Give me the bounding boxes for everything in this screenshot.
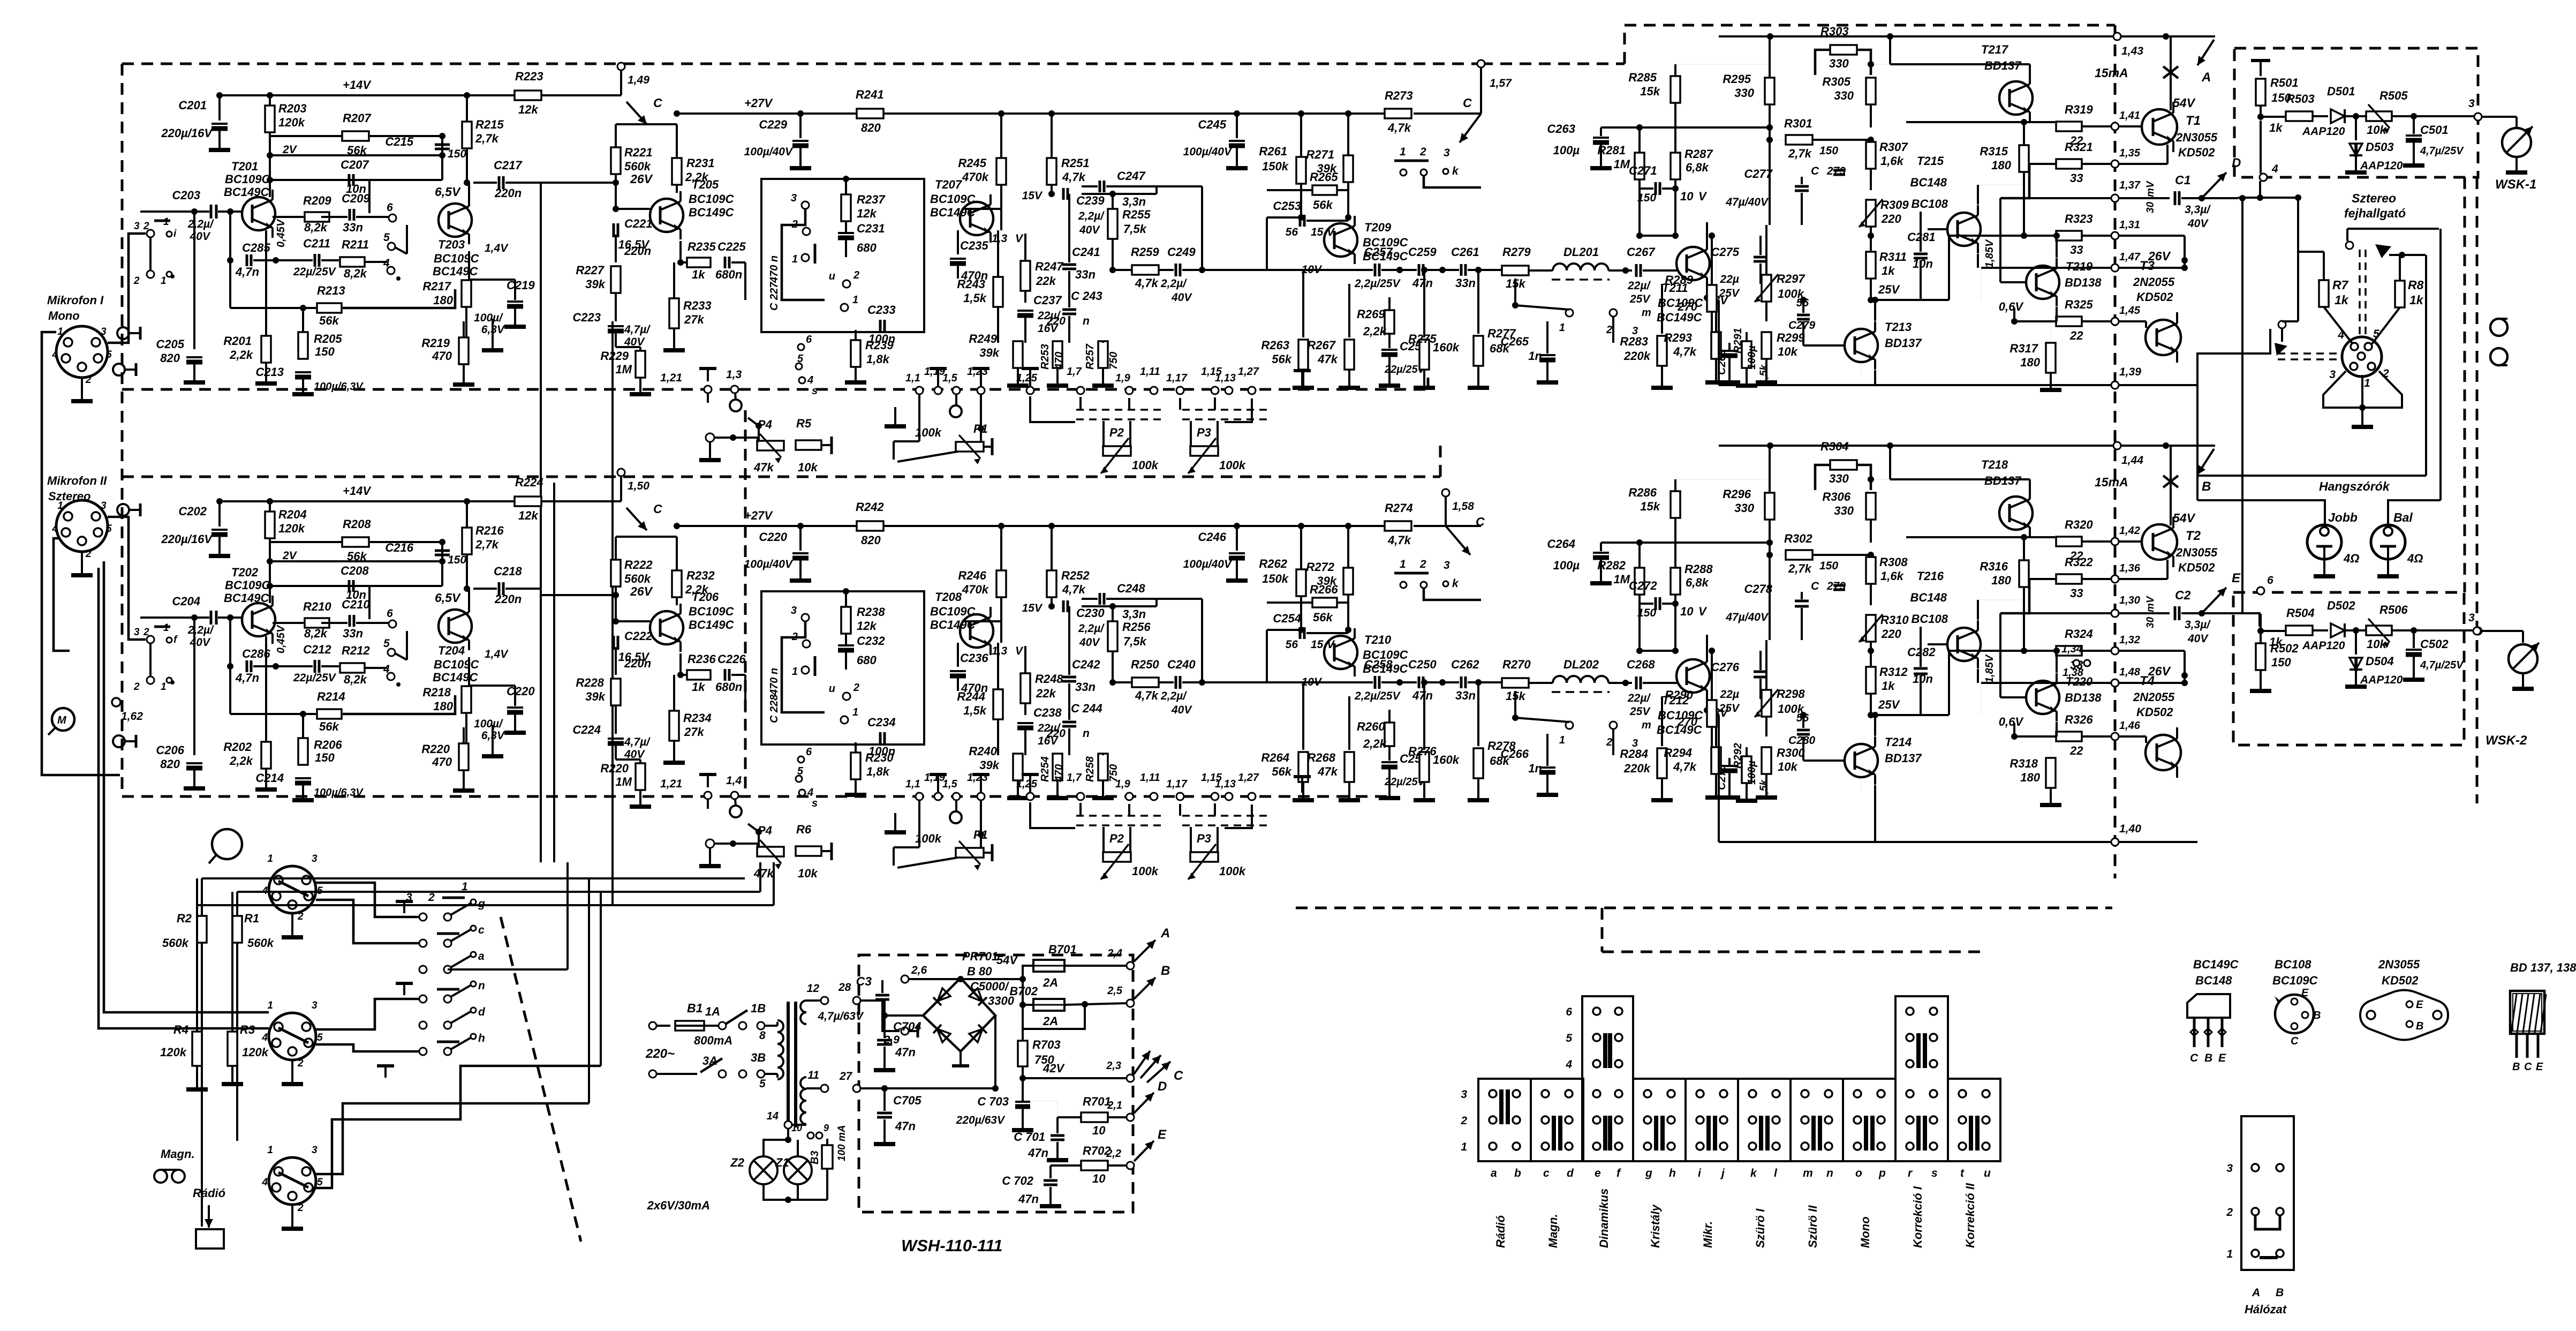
svg-text:Magn.: Magn. [1546, 1214, 1560, 1248]
svg-text:4,7n: 4,7n [235, 265, 259, 279]
svg-text:R267: R267 [1307, 339, 1336, 352]
svg-text:6,5V: 6,5V [435, 185, 461, 199]
svg-text:100µ: 100µ [1553, 559, 1580, 572]
svg-text:120k: 120k [242, 1046, 269, 1059]
svg-text:Z1: Z1 [775, 1156, 789, 1169]
svg-text:V: V [1015, 232, 1024, 245]
svg-text:270: 270 [1677, 715, 1697, 728]
svg-text:6: 6 [2267, 574, 2273, 586]
svg-text:6,5V: 6,5V [435, 591, 461, 605]
svg-text:R320: R320 [2065, 518, 2093, 531]
svg-text:8,2k: 8,2k [344, 267, 368, 280]
svg-text:A: A [2252, 1287, 2260, 1299]
svg-text:56k: 56k [319, 720, 339, 733]
svg-text:2: 2 [133, 275, 140, 287]
svg-text:T205: T205 [692, 178, 719, 191]
svg-text:10: 10 [1092, 1172, 1106, 1185]
svg-text:C242: C242 [1072, 658, 1100, 671]
svg-text:22µ/: 22µ/ [1627, 280, 1651, 292]
svg-text:R228: R228 [576, 676, 604, 689]
svg-text:+27V: +27V [744, 509, 773, 522]
svg-text:d: d [478, 1006, 486, 1018]
svg-text:m: m [1803, 1167, 1813, 1179]
svg-text:220k: 220k [1623, 762, 1651, 775]
svg-text:BC148: BC148 [2195, 974, 2232, 987]
svg-text:47n: 47n [1028, 1146, 1048, 1160]
svg-text:1,3: 1,3 [992, 645, 1008, 657]
svg-text:BC149C: BC149C [2193, 958, 2239, 971]
svg-text:R298: R298 [1777, 687, 1805, 701]
svg-text:2x6V/30mA: 2x6V/30mA [647, 1199, 710, 1212]
svg-text:BC109C: BC109C [225, 172, 270, 186]
svg-text:56: 56 [1286, 638, 1298, 651]
svg-text:1: 1 [2226, 1248, 2233, 1260]
svg-text:C213: C213 [255, 365, 284, 379]
svg-text:B: B [2276, 1287, 2284, 1299]
svg-text:C: C [1811, 165, 1819, 177]
svg-text:R233: R233 [683, 299, 712, 312]
svg-text:1,21: 1,21 [660, 778, 682, 790]
svg-text:V: V [1698, 190, 1708, 203]
svg-text:C246: C246 [1198, 530, 1226, 544]
svg-text:C203: C203 [172, 189, 200, 202]
svg-text:33n: 33n [1455, 276, 1476, 290]
svg-text:30: 30 [2145, 616, 2156, 628]
svg-text:C278: C278 [1744, 582, 1772, 596]
svg-text:T208: T208 [935, 590, 962, 604]
svg-text:Mikrofon I: Mikrofon I [47, 294, 104, 307]
svg-text:1,5k: 1,5k [1758, 364, 1770, 385]
svg-text:47µ/40V: 47µ/40V [1725, 611, 1769, 623]
svg-text:P3: P3 [1197, 832, 1211, 845]
svg-text:C: C [2190, 1052, 2199, 1064]
svg-text:2,1: 2,1 [1107, 1100, 1122, 1111]
svg-text:R210: R210 [303, 600, 331, 613]
svg-text:k: k [1750, 1167, 1757, 1179]
svg-text:R251: R251 [1061, 156, 1090, 170]
svg-text:R219: R219 [421, 336, 450, 350]
svg-text:22µ: 22µ [1720, 688, 1739, 701]
svg-text:m: m [1642, 719, 1651, 731]
svg-text:100µ/40V: 100µ/40V [744, 558, 794, 570]
svg-text:1,46: 1,46 [2119, 720, 2141, 732]
svg-text:5: 5 [383, 637, 390, 650]
svg-text:D501: D501 [2327, 85, 2355, 98]
svg-text:4,7k: 4,7k [1387, 533, 1412, 547]
svg-text:R310: R310 [1880, 613, 1909, 627]
svg-text:47k: 47k [1317, 352, 1338, 366]
svg-text:12k: 12k [518, 103, 539, 116]
svg-text:15: 15 [1311, 638, 1324, 651]
svg-text:330: 330 [1834, 89, 1854, 102]
svg-text:R703: R703 [1032, 1038, 1061, 1051]
svg-text:n: n [1083, 315, 1090, 327]
svg-text:BC109C: BC109C [434, 252, 479, 265]
svg-text:15: 15 [1311, 226, 1324, 238]
svg-text:40V: 40V [1079, 224, 1100, 236]
svg-text:1k: 1k [692, 680, 706, 694]
svg-text:R240: R240 [969, 745, 997, 758]
svg-text:Sztereo: Sztereo [2352, 191, 2396, 205]
svg-text:10k: 10k [2367, 637, 2387, 651]
svg-text:270: 270 [1677, 300, 1697, 313]
svg-text:2: 2 [297, 1202, 304, 1214]
svg-text:40V: 40V [2187, 633, 2209, 645]
svg-text:KD502: KD502 [2178, 146, 2215, 159]
svg-text:3: 3 [312, 853, 318, 864]
svg-text:R261: R261 [1259, 145, 1287, 158]
svg-text:C266: C266 [1500, 747, 1529, 761]
svg-text:C221: C221 [624, 217, 653, 230]
svg-text:R302: R302 [1784, 532, 1812, 545]
svg-text:25V: 25V [1629, 293, 1651, 305]
svg-text:V: V [1698, 605, 1708, 618]
svg-text:4: 4 [51, 523, 58, 535]
svg-text:C265: C265 [1500, 335, 1529, 348]
svg-text:8,2k: 8,2k [304, 627, 328, 640]
svg-text:1,40: 1,40 [2119, 823, 2141, 835]
svg-text:3: 3 [791, 605, 797, 616]
svg-text:1k: 1k [2269, 121, 2283, 134]
svg-text:5: 5 [317, 1177, 323, 1188]
svg-text:8,2k: 8,2k [344, 673, 368, 686]
svg-text:mV: mV [2145, 181, 2156, 197]
svg-text:BD137: BD137 [1984, 474, 2022, 487]
svg-text:25V: 25V [1878, 283, 1900, 296]
svg-text:3: 3 [101, 326, 107, 337]
svg-text:40V: 40V [1079, 636, 1100, 649]
svg-text:BD137: BD137 [1885, 336, 1922, 350]
svg-text:R288: R288 [1684, 562, 1713, 576]
svg-text:1,39: 1,39 [2119, 366, 2141, 378]
svg-text:R222: R222 [624, 558, 653, 571]
svg-text:R307: R307 [1879, 140, 1908, 154]
svg-text:C232: C232 [857, 634, 885, 648]
svg-text:Hálózat: Hálózat [2245, 1303, 2287, 1316]
svg-text:C239: C239 [1076, 194, 1105, 207]
svg-text:1: 1 [1559, 734, 1565, 746]
svg-text:T207: T207 [935, 178, 963, 191]
svg-text:T218: T218 [1981, 458, 2008, 471]
svg-text:R247: R247 [1035, 260, 1064, 273]
svg-text:2,6: 2,6 [911, 964, 927, 976]
svg-text:BC109C: BC109C [2272, 974, 2318, 987]
svg-text:Dinamikus: Dinamikus [1597, 1189, 1611, 1248]
svg-text:100µ: 100µ [1553, 144, 1580, 157]
svg-text:C250: C250 [1408, 658, 1437, 671]
svg-text:b: b [1514, 1167, 1521, 1179]
svg-text:R253: R253 [1039, 344, 1051, 370]
svg-text:22µ/: 22µ/ [1627, 692, 1651, 704]
svg-text:WSK-2: WSK-2 [2486, 733, 2527, 748]
svg-text:2: 2 [428, 891, 435, 904]
svg-text:c: c [478, 924, 485, 936]
svg-text:22µ/25V: 22µ/25V [293, 672, 337, 684]
svg-text:39k: 39k [979, 758, 1000, 772]
svg-text:R266: R266 [1310, 583, 1338, 596]
svg-text:0,45V: 0,45V [275, 219, 287, 247]
svg-text:C: C [1174, 1069, 1183, 1083]
svg-text:100k: 100k [1132, 458, 1159, 472]
svg-text:R282: R282 [1597, 559, 1626, 572]
svg-text:11: 11 [807, 1069, 819, 1081]
svg-text:KD502: KD502 [2178, 561, 2215, 574]
svg-text:KD502: KD502 [2136, 290, 2173, 304]
svg-text:R269: R269 [1357, 307, 1385, 321]
svg-text:R295: R295 [1723, 72, 1751, 86]
svg-text:mV: mV [2145, 596, 2156, 612]
svg-text:C: C [1476, 515, 1485, 529]
svg-text:10: 10 [791, 1123, 802, 1133]
svg-text:47n: 47n [1412, 689, 1433, 702]
svg-text:C206: C206 [156, 743, 184, 757]
svg-text:A: A [1160, 926, 1170, 941]
svg-text:T217: T217 [1981, 43, 2009, 56]
svg-text:C5000/: C5000/ [970, 980, 1010, 993]
svg-text:1M: 1M [1613, 157, 1630, 171]
svg-text:n: n [1083, 727, 1090, 740]
svg-text:R322: R322 [2065, 555, 2093, 569]
svg-text:R217: R217 [422, 280, 451, 293]
svg-text:2: 2 [297, 1058, 304, 1069]
svg-text:47n: 47n [1412, 276, 1433, 290]
svg-text:180: 180 [2020, 771, 2040, 784]
svg-text:R249: R249 [969, 332, 997, 345]
svg-text:26V: 26V [630, 172, 653, 186]
svg-text:180: 180 [1991, 574, 2011, 587]
svg-text:4,7k: 4,7k [1062, 170, 1086, 184]
svg-text:AAP120: AAP120 [2302, 125, 2345, 138]
svg-text:3: 3 [1444, 147, 1450, 159]
svg-text:R312: R312 [1879, 665, 1908, 679]
svg-text:C264: C264 [1547, 537, 1575, 551]
svg-text:R250: R250 [1131, 658, 1159, 671]
svg-text:BC148: BC148 [1910, 591, 1947, 604]
svg-text:R296: R296 [1723, 487, 1751, 501]
svg-text:100µ/: 100µ/ [474, 718, 503, 730]
svg-text:560k: 560k [162, 936, 190, 950]
svg-text:100 mA: 100 mA [836, 1125, 848, 1161]
svg-text:470k: 470k [962, 170, 989, 184]
svg-text:T213: T213 [1885, 320, 1912, 334]
svg-text:1k: 1k [1882, 679, 1895, 693]
svg-text:680: 680 [857, 241, 877, 254]
svg-text:1: 1 [161, 275, 167, 287]
svg-text:100µ/: 100µ/ [474, 312, 503, 324]
svg-text:470 n: 470 n [768, 255, 780, 283]
svg-text:s: s [812, 798, 818, 809]
svg-text:25V: 25V [1719, 702, 1740, 715]
svg-text:R256: R256 [1122, 620, 1151, 634]
svg-text:1,9: 1,9 [1115, 778, 1131, 790]
svg-text:1A: 1A [705, 1005, 720, 1018]
svg-text:2: 2 [853, 682, 859, 694]
svg-text:1,7: 1,7 [1067, 772, 1082, 784]
svg-text:C261: C261 [1451, 245, 1479, 259]
svg-text:R285: R285 [1628, 71, 1657, 84]
svg-text:D: D [1158, 1079, 1167, 1094]
svg-text:C215: C215 [385, 135, 413, 148]
svg-text:Z2: Z2 [730, 1156, 744, 1169]
svg-text:Szürö I: Szürö I [1754, 1208, 1767, 1248]
svg-text:15k: 15k [1640, 500, 1660, 513]
svg-text:10n: 10n [1913, 672, 1933, 686]
svg-text:C216: C216 [385, 541, 413, 554]
svg-text:R274: R274 [1385, 501, 1413, 515]
svg-text:BD137: BD137 [1885, 751, 1922, 765]
svg-text:T202: T202 [231, 566, 259, 579]
svg-text:220n: 220n [494, 186, 522, 200]
svg-text:R300: R300 [1777, 746, 1805, 760]
svg-text:10k: 10k [798, 867, 818, 880]
svg-text:BC108: BC108 [1912, 197, 1948, 210]
svg-text:R303: R303 [1820, 25, 1849, 38]
svg-text:1,25: 1,25 [1016, 372, 1038, 384]
svg-text:56k: 56k [1313, 198, 1333, 212]
svg-text:1: 1 [1559, 322, 1565, 334]
svg-text:1,30: 1,30 [2119, 595, 2140, 606]
svg-text:1,35: 1,35 [2119, 147, 2141, 159]
svg-text:R230: R230 [865, 751, 894, 764]
svg-text:1: 1 [267, 1145, 273, 1156]
svg-text:C704: C704 [893, 1020, 921, 1033]
svg-text:E: E [2301, 987, 2309, 999]
svg-text:4: 4 [261, 1177, 268, 1188]
svg-text:820: 820 [160, 351, 180, 365]
svg-text:10k: 10k [798, 461, 818, 474]
svg-text:40V: 40V [190, 636, 211, 649]
svg-text:1M: 1M [615, 775, 632, 788]
svg-text:3: 3 [2226, 1162, 2233, 1175]
svg-text:R1: R1 [244, 912, 259, 925]
svg-text:R252: R252 [1061, 569, 1090, 582]
svg-text:1,85V: 1,85V [1984, 239, 1996, 268]
svg-text:40V: 40V [1171, 704, 1192, 716]
svg-text:1,49: 1,49 [628, 74, 649, 86]
svg-text:1M: 1M [615, 363, 632, 376]
svg-text:160k: 160k [1433, 753, 1460, 766]
svg-text:1,37: 1,37 [2119, 179, 2141, 191]
svg-text:BC109C: BC109C [689, 605, 734, 618]
svg-text:1,13: 1,13 [1215, 372, 1236, 384]
svg-text:22k: 22k [1036, 274, 1056, 288]
svg-text:2,7k: 2,7k [1788, 562, 1812, 575]
svg-text:1: 1 [1461, 1141, 1467, 1153]
svg-text:9: 9 [824, 1123, 829, 1133]
svg-text:100k: 100k [1132, 864, 1159, 878]
svg-text:C236: C236 [960, 651, 988, 665]
svg-text:40V: 40V [1171, 291, 1192, 304]
svg-text:8: 8 [759, 1029, 766, 1042]
svg-text:27k: 27k [684, 313, 705, 326]
svg-text:3,3µ/: 3,3µ/ [2185, 619, 2211, 631]
svg-text:T215: T215 [1917, 154, 1944, 168]
svg-text:R271: R271 [1306, 148, 1334, 161]
svg-text:1,5k: 1,5k [1758, 779, 1770, 800]
svg-text:160k: 160k [1433, 341, 1460, 354]
svg-text:C272: C272 [1629, 579, 1657, 592]
svg-text:Szürö II: Szürö II [1806, 1205, 1819, 1248]
svg-text:1k: 1k [692, 268, 706, 281]
svg-text:R286: R286 [1628, 486, 1657, 499]
svg-text:4,7µ/25V: 4,7µ/25V [2420, 145, 2464, 157]
svg-text:Korrekció I: Korrekció I [1911, 1186, 1924, 1248]
svg-text:5: 5 [383, 231, 390, 244]
svg-text:i: i [173, 228, 177, 239]
svg-text:1,43: 1,43 [2121, 45, 2143, 57]
svg-text:750: 750 [1108, 352, 1120, 370]
svg-text:1,5: 1,5 [942, 778, 958, 790]
svg-text:470k: 470k [962, 583, 989, 596]
svg-text:1,5k: 1,5k [963, 704, 987, 717]
svg-text:150: 150 [1819, 145, 1838, 157]
svg-text:2: 2 [85, 374, 92, 386]
svg-text:4,7µ/25V: 4,7µ/25V [2420, 659, 2464, 671]
svg-text:1: 1 [163, 216, 169, 228]
svg-text:R205: R205 [314, 332, 342, 345]
svg-text:220: 220 [1046, 727, 1066, 740]
svg-text:2,2µ/: 2,2µ/ [187, 218, 214, 230]
svg-text:1: 1 [57, 326, 63, 337]
svg-text:E: E [2218, 1052, 2226, 1064]
svg-text:BC149C: BC149C [433, 265, 478, 278]
svg-text:2N2055: 2N2055 [2133, 275, 2175, 289]
svg-text:R290: R290 [1665, 688, 1693, 702]
svg-text:33n: 33n [343, 627, 363, 640]
svg-text:C271: C271 [1629, 164, 1657, 177]
svg-text:AAP120: AAP120 [2302, 640, 2345, 652]
svg-text:C267: C267 [1627, 245, 1656, 259]
svg-text:R208: R208 [343, 517, 371, 531]
svg-text:2,2µ/: 2,2µ/ [1078, 622, 1105, 635]
svg-text:1,11: 1,11 [1140, 366, 1160, 378]
svg-text:4: 4 [383, 663, 390, 675]
svg-text:R297: R297 [1777, 272, 1806, 285]
svg-text:R306: R306 [1822, 490, 1850, 503]
svg-text:100k: 100k [1219, 458, 1247, 472]
svg-text:1: 1 [852, 294, 858, 306]
svg-text:680n: 680n [715, 268, 742, 281]
svg-text:Mikrofon II: Mikrofon II [47, 474, 107, 487]
svg-text:C 702: C 702 [1002, 1174, 1033, 1187]
svg-text:100k: 100k [1219, 864, 1247, 878]
svg-text:C233: C233 [867, 303, 896, 317]
svg-text:4: 4 [261, 1032, 268, 1043]
svg-text:1,47: 1,47 [2119, 251, 2141, 263]
svg-text:1,9: 1,9 [1115, 372, 1131, 384]
svg-text:470: 470 [432, 755, 452, 769]
svg-text:+14V: +14V [343, 484, 372, 498]
svg-text:BC149C: BC149C [689, 618, 734, 631]
svg-text:1,58: 1,58 [1452, 500, 1474, 513]
svg-text:30: 30 [2145, 201, 2156, 213]
svg-text:3: 3 [101, 500, 107, 512]
svg-text:1,62: 1,62 [121, 710, 143, 723]
svg-text:C262: C262 [1451, 658, 1479, 671]
svg-text:C212: C212 [303, 643, 331, 656]
svg-text:T210: T210 [1364, 633, 1392, 646]
svg-text:a: a [1491, 1167, 1497, 1179]
svg-text:4: 4 [2271, 163, 2278, 175]
svg-text:1,38: 1,38 [2063, 667, 2084, 679]
svg-text:15k: 15k [1640, 85, 1660, 98]
svg-text:22: 22 [2069, 329, 2083, 342]
svg-text:220: 220 [1881, 212, 1901, 225]
svg-text:2: 2 [1606, 736, 1612, 748]
svg-text:3: 3 [1444, 559, 1450, 571]
svg-text:150k: 150k [1262, 160, 1289, 173]
svg-text:R5: R5 [796, 417, 812, 430]
